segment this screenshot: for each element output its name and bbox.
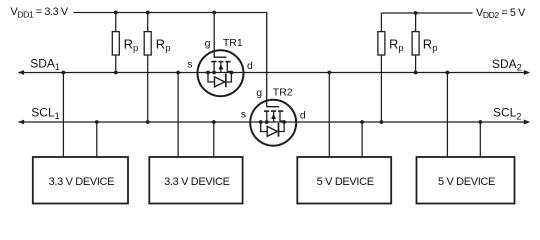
wire device 1 SDA pin: [62, 73, 64, 158]
svg-text:g: g: [256, 87, 262, 99]
junction device 1 SDA pin junction: [62, 71, 66, 75]
svg-text:d: d: [300, 110, 306, 122]
svg-text:TR2: TR2: [273, 87, 293, 99]
junction R4 top to VDD2 rail: [414, 11, 418, 15]
arrow SDA2 right end: [524, 70, 530, 75]
wire device 2 SDA pin: [177, 73, 179, 158]
svg-text:TR1: TR1: [223, 37, 243, 49]
junction R1 bottom to SDA1: [114, 71, 118, 75]
svg-text:5 V DEVICE: 5 V DEVICE: [317, 176, 374, 188]
device 4 (5 V DEVICE): [417, 157, 515, 204]
wire device 2 SCL pin: [213, 122, 215, 157]
junction R2 top to VDD1 rail: [146, 11, 150, 15]
wire device 1 SCL pin: [96, 122, 98, 157]
junction R3 bottom to SCL2: [380, 120, 384, 124]
net VDD2 power rail: [381, 12, 472, 14]
svg-text:3.3 V DEVICE: 3.3 V DEVICE: [49, 176, 115, 188]
resistor R2 pull-up SCL1 (Rp): [144, 13, 151, 123]
junction device 3 SDA pin junction: [327, 71, 331, 75]
junction R4 bottom to SDA2: [414, 71, 418, 75]
net SDA bus line (SDA1 left, SDA2 right): [19, 72, 526, 74]
junction device 2 SCL pin junction: [212, 120, 216, 124]
resistor R1 pull-up SDA1 (Rp): [112, 13, 119, 73]
wire TR1 gate lead from VDD1 rail: [213, 13, 215, 58]
svg-text:s: s: [241, 108, 246, 120]
resistor R3 pull-up SCL2 (Rp): [378, 13, 385, 122]
junction R1 top to VDD1 rail: [114, 11, 118, 15]
junction device 2 SDA pin junction: [176, 71, 180, 75]
wire device 3 SDA pin: [328, 73, 330, 158]
transistor TR2 (N-channel MOSFET in circle, with body diode): [250, 100, 296, 146]
arrow SDA1 left end: [18, 70, 24, 75]
wire TR2 gate lead from VDD1 rail end corner, crossing SDA: [266, 13, 268, 107]
wire device 3 SCL pin: [361, 122, 363, 157]
svg-text:g: g: [205, 38, 211, 50]
device 1 (3.3 V DEVICE): [33, 157, 128, 204]
wire device 4 SDA pin: [446, 73, 448, 158]
svg-text:3.3 V DEVICE: 3.3 V DEVICE: [164, 176, 230, 188]
junction TR1 gate to VDD1 rail: [212, 11, 216, 15]
junction device 3 SCL pin junction: [360, 120, 364, 124]
arrow SCL1 left end: [18, 120, 24, 125]
junction device 4 SDA pin junction: [446, 71, 450, 75]
svg-text:d: d: [247, 60, 253, 72]
resistor R4 pull-up SDA2 (Rp): [412, 13, 419, 73]
svg-text:s: s: [187, 59, 192, 71]
net VDD1 power rail: [74, 12, 268, 14]
junction R2 bottom to SCL1: [146, 120, 150, 124]
junction device 1 SCL pin junction: [95, 120, 99, 124]
wire device 4 SCL pin: [479, 122, 481, 157]
device 2 (3.3 V DEVICE): [149, 157, 242, 204]
arrow SCL2 right end: [524, 120, 530, 125]
junction device 4 SCL pin junction: [478, 120, 482, 124]
device 3 (5 V DEVICE): [297, 157, 391, 204]
net SCL bus line (SCL1 left, SCL2 right): [19, 121, 526, 123]
svg-text:5 V DEVICE: 5 V DEVICE: [438, 176, 495, 188]
transistor TR1 (N-channel MOSFET in circle, with body diode): [198, 50, 244, 96]
